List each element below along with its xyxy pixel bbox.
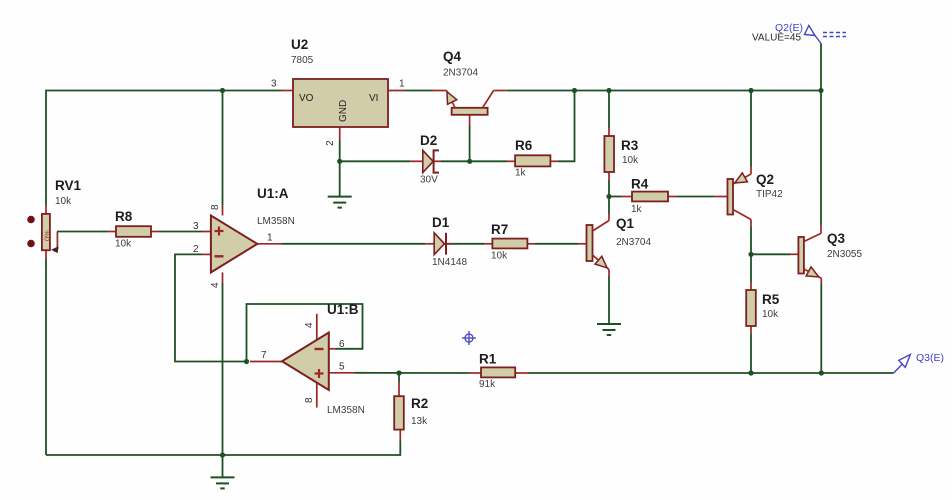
svg-text:7: 7 (261, 350, 267, 361)
pin U1:B pin5 stub (329, 372, 355, 374)
pin U1:B pin6 stub (329, 348, 336, 350)
wire D2 cathode to Q4 base node to R6 (441, 160, 507, 162)
resistor R1 body (481, 367, 515, 377)
junction U1:B output feedback (244, 359, 249, 364)
wire R3 top column (608, 91, 610, 129)
svg-text:U2: U2 (291, 37, 308, 52)
svg-text:R6: R6 (515, 138, 533, 153)
svg-text:2N3704: 2N3704 (616, 237, 651, 248)
wire node down to R5 (750, 254, 752, 282)
svg-text:1k: 1k (631, 204, 643, 215)
transistor Q3 2N3055 base bar (798, 237, 804, 274)
U1:B plus symbol (315, 372, 324, 374)
svg-text:Q2: Q2 (756, 172, 774, 187)
junction Q2 collector / Q3 base / R5 (748, 252, 753, 257)
svg-text:R7: R7 (491, 222, 508, 237)
pin R6 left stub (507, 160, 515, 162)
pin Q2 base stub (714, 196, 728, 198)
Q2 collector lead (733, 210, 751, 220)
svg-text:LM358N: LM358N (257, 216, 295, 227)
wire Q3 emitter down to output rail (820, 284, 822, 373)
wire D2 node to D2 anode (340, 160, 410, 162)
D1 cathode bar (445, 233, 447, 255)
svg-text:10k: 10k (762, 309, 779, 320)
wire top rail right of Q4 to Q3 collector column (507, 90, 821, 92)
pin U1:A pin8 stub (222, 205, 224, 216)
pin R3 top stub (608, 128, 610, 136)
wire Q2 collector down to node (750, 227, 752, 254)
svg-text:R3: R3 (621, 138, 639, 153)
wire R8 to U1:A pin3 (159, 231, 202, 233)
svg-text:R8: R8 (115, 209, 133, 224)
svg-text:R1: R1 (479, 352, 497, 367)
svg-text:8: 8 (210, 204, 221, 210)
U1:A plus symbol (215, 230, 224, 232)
junction U2 GND / D2 node (337, 159, 342, 164)
svg-text:Q3: Q3 (827, 231, 846, 246)
RV1 wiper lead (56, 232, 58, 250)
Q4 emitter lead with arrow (446, 91, 455, 108)
junction top rail / Q2 emitter (748, 88, 753, 93)
wire Q2 emitter up to top rail (750, 91, 752, 168)
resistor R7 body (492, 239, 527, 249)
Q1 collector lead (593, 221, 610, 232)
junction bottom rail / ground (220, 452, 225, 457)
svg-text:1: 1 (399, 79, 405, 90)
svg-text:3: 3 (193, 221, 199, 232)
wire bottom ground rail (46, 441, 400, 455)
svg-text:6: 6 (339, 339, 345, 350)
svg-text:91k: 91k (479, 379, 496, 390)
svg-text:RV1: RV1 (55, 178, 82, 193)
pin U1:B pin7 stub (250, 361, 282, 363)
wire U2 pin2 down to D2 node (339, 140, 341, 197)
wire U1:B feedback loop pin7 to pin6 (247, 304, 363, 362)
pin R8 right stub (151, 231, 159, 233)
svg-text:VI: VI (369, 93, 378, 104)
pin R3 bottom stub (608, 172, 610, 180)
pin U2 VO stub (282, 90, 294, 92)
wire U1:A pin4 ground column (222, 283, 224, 455)
junction R5 / output rail (748, 370, 753, 375)
op-amp U1:A body (211, 216, 257, 273)
svg-text:Q1: Q1 (616, 216, 635, 231)
diode D1 1N4148 body (434, 233, 444, 255)
pin R4 left stub (621, 196, 632, 198)
Q3 emitter lead with arrow (804, 269, 821, 278)
svg-text:VO: VO (299, 93, 314, 104)
svg-text:5: 5 (339, 362, 345, 373)
wire Q3 collector column from top rail (820, 91, 822, 226)
svg-text:D2: D2 (420, 133, 437, 148)
svg-text:U1:B: U1:B (327, 302, 359, 317)
pin Q2 collector stub (750, 220, 752, 228)
pin U1:B pin8 stub (316, 383, 318, 408)
pin D1 cathode stub (446, 243, 452, 245)
svg-text:R2: R2 (411, 396, 428, 411)
Q4 emitter stub (433, 90, 446, 92)
pin Q3 collector stub (820, 225, 822, 233)
svg-text:VALUE=45: VALUE=45 (752, 33, 801, 44)
U1:A minus symbol (215, 255, 224, 257)
D2 cathode bar with zener ticks (434, 150, 439, 172)
wire U1:A output to D1 (282, 243, 425, 245)
svg-text:8: 8 (304, 397, 315, 403)
zener diode D2 body (423, 150, 433, 172)
pin R7 left stub (484, 243, 492, 245)
wire U1:B pin5 to R2 node (355, 372, 469, 374)
pin U1:A pin4 stub (222, 272, 224, 283)
Q2 emitter lead with PNP arrow (733, 174, 751, 184)
potentiometer RV1 body (42, 214, 50, 250)
resistor R6 body (515, 155, 550, 166)
pin U2 VI stub (388, 90, 405, 92)
resistor R3 body (604, 136, 614, 172)
pin D2 cathode stub (434, 160, 441, 162)
svg-text:LM358N: LM358N (327, 405, 365, 416)
pin Q1 base stub (578, 243, 587, 245)
junction top rail / U1:A pin8 (220, 88, 225, 93)
svg-text:10k: 10k (115, 239, 132, 250)
pin R1 right stub (515, 372, 528, 374)
svg-text:R4: R4 (631, 177, 649, 192)
wire Q2 collector node to Q3 base (751, 253, 790, 255)
pin U1:A in- stub (202, 253, 211, 255)
junction R2 top / pin5 wire (396, 370, 401, 375)
wire probe Q2(E) drop (820, 44, 822, 91)
pin U1:A in+ stub (202, 231, 211, 233)
op-amp U1:B body (282, 333, 329, 391)
svg-text:Q3(E): Q3(E) (916, 352, 944, 364)
svg-text:13k: 13k (411, 416, 428, 427)
pin R2 top stub (398, 382, 400, 396)
voltage regulator U2 7805 body (293, 79, 388, 127)
RV1 terminal dot top (27, 216, 35, 224)
junction top rail / R6 column (572, 88, 577, 93)
svg-text:7805: 7805 (291, 55, 314, 66)
svg-text:TIP42: TIP42 (756, 189, 783, 200)
wire R4 to Q2 base (677, 196, 714, 198)
ground under Q1 emitter (597, 323, 621, 325)
svg-text:2N3055: 2N3055 (827, 249, 862, 260)
pin R6 right stub (550, 160, 558, 162)
wire R4 left stub (609, 196, 621, 198)
Q4 collector lead (483, 91, 494, 108)
wire R7 to Q1 base (535, 243, 578, 245)
svg-text:10k: 10k (491, 251, 508, 262)
pin U1:B pin4 stub (316, 314, 318, 341)
Q4 collector stub (494, 90, 507, 92)
wire Q4 base column (469, 126, 471, 161)
wire R4 node to Q1 collector (608, 197, 610, 215)
svg-text:10k: 10k (622, 155, 639, 166)
junction Q4 base / zener node (467, 159, 472, 164)
ground under U2 pin2 (328, 196, 352, 198)
RV1 terminal dot bottom (27, 240, 35, 248)
resistor R5 body (746, 290, 756, 326)
junction top rail / probe and Q3 collector (818, 88, 823, 93)
wire R1 to output rail and probe Q3(E) (528, 372, 894, 374)
pin R1 left stub (469, 372, 481, 374)
svg-text:1N4148: 1N4148 (432, 257, 467, 268)
Q1 emitter lead with arrow (593, 255, 610, 270)
pin Q4 base stub (469, 115, 471, 126)
wire U1:A pin8 supply column (222, 91, 224, 206)
resistor R4 body (632, 192, 668, 202)
pin Q3 emitter stub (820, 278, 822, 284)
pin R8 left stub (108, 231, 116, 233)
wire R5 bottom to output rail (750, 334, 752, 373)
pin R5 bottom stub (750, 326, 752, 334)
ground bottom rail (211, 476, 235, 478)
transistor Q4 2N3704 base bar (452, 108, 488, 115)
wire R2 node down stub (398, 373, 400, 382)
transistor Q1 2N3704 base bar (587, 225, 593, 261)
svg-text:4: 4 (304, 322, 315, 328)
svg-text:D1: D1 (432, 215, 450, 230)
pin U1:A output stub (257, 243, 282, 245)
svg-text:GND: GND (338, 100, 349, 122)
wire U1:A pin2 feedback to U1:B output (175, 254, 247, 361)
svg-text:R5: R5 (762, 292, 780, 307)
pin D2 anode stub (410, 160, 423, 162)
probe Q3(E) voltage probe symbol (894, 364, 903, 373)
wire R3 bottom to R4 node (608, 180, 610, 197)
junction top rail / R3 column (606, 88, 611, 93)
RV1 wiper arrow (52, 247, 59, 253)
pin R5 top stub (750, 282, 752, 290)
pin R2 bottom stub (399, 430, 401, 441)
pin Q2 emitter stub (750, 167, 752, 174)
svg-text:3: 3 (271, 79, 277, 90)
probe Q2(E) voltage probe symbol (805, 26, 816, 36)
wire left vertical rail (RV1 branch) (46, 91, 282, 206)
wire U2 VI to Q4 emitter (405, 90, 433, 92)
resistor R8 body (116, 226, 151, 237)
wire left vertical below RV1 (45, 259, 47, 455)
svg-text:1k: 1k (515, 168, 527, 179)
wire Q1 emitter to ground (608, 276, 610, 324)
pin Q1 collector stub (608, 214, 610, 221)
svg-text:4: 4 (210, 282, 221, 288)
origin marker crosshair (462, 331, 476, 345)
Q3 collector lead (804, 233, 821, 241)
svg-text:2: 2 (193, 244, 199, 255)
svg-text:30V: 30V (420, 175, 438, 186)
wire ground stub below bottom rail (222, 455, 224, 477)
pin R4 right stub (668, 196, 677, 198)
U1:B minus symbol (315, 348, 324, 350)
transistor Q2 TIP42 base bar (728, 179, 734, 215)
svg-text:10k: 10k (55, 196, 72, 207)
pin D1 anode stub (425, 243, 434, 245)
svg-text:1: 1 (267, 233, 273, 244)
pin RV1 top stub (45, 205, 47, 214)
pin RV1 bottom stub (45, 250, 47, 259)
wire R6 right up to top rail (558, 91, 575, 162)
svg-text:2: 2 (325, 140, 336, 146)
junction Q3 emitter / output rail (819, 370, 824, 375)
pin Q1 emitter stub (608, 270, 610, 277)
svg-text:Q4: Q4 (443, 49, 462, 64)
svg-text:0%: 0% (43, 230, 52, 241)
resistor R2 body (394, 396, 404, 429)
svg-text:U1:A: U1:A (257, 186, 289, 201)
junction R3 / R4 / Q1 collector (606, 194, 611, 199)
pin U2 GND stub (339, 127, 341, 140)
svg-text:2N3704: 2N3704 (443, 68, 478, 79)
wire D1 to R7 (441, 243, 484, 245)
pin R7 right stub (527, 243, 535, 245)
pin Q3 base stub (790, 253, 798, 255)
wire RV1 wiper to R8 (57, 231, 108, 233)
